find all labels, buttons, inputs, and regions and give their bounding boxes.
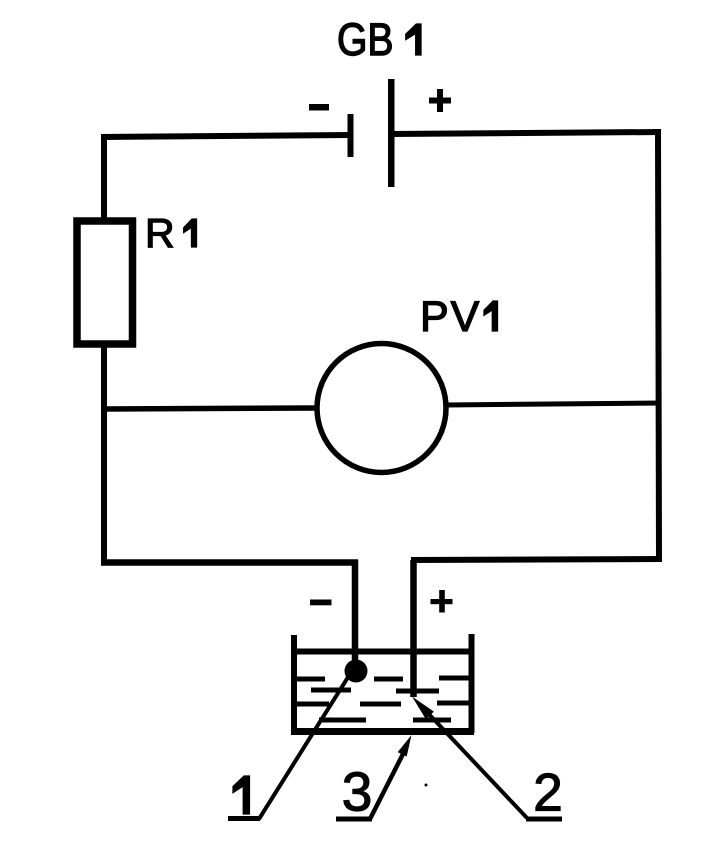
cell electrode 1 (cathode wire): [352, 560, 359, 665]
svg-text:R: R: [145, 210, 175, 256]
polarity plus (battery): [429, 89, 451, 112]
cell electrode 1 ball tip (node 1): [345, 660, 368, 683]
cell vessel left wall: [291, 635, 297, 733]
battery GB1 negative plate: [348, 114, 354, 157]
callout label 1: [233, 776, 250, 814]
svg-text:PV: PV: [420, 293, 481, 341]
wire left rail upper (top wire to R1): [101, 134, 107, 221]
callout underline 1: [228, 816, 260, 821]
electrolyte dashes row 4: [319, 718, 451, 723]
wire top-left (battery minus to left rail): [101, 135, 351, 137]
scan speck: [425, 784, 428, 787]
wire bottom-right (anode to right rail): [411, 559, 661, 560]
meter PV1: [317, 344, 446, 473]
wire left rail lower (R1 to bottom wire): [101, 344, 107, 565]
callout leader line 3 (to vessel bottom): [370, 752, 404, 819]
callout underline 2: [526, 817, 562, 822]
meter PV1 label: [420, 293, 498, 341]
wire top-right (battery plus to right rail): [391, 132, 661, 134]
callout leader line 2 (to anode tip): [425, 710, 527, 818]
svg-text:GB: GB: [337, 14, 394, 64]
svg-text:2: 2: [533, 764, 562, 823]
battery GB1 positive plate: [388, 79, 395, 187]
electrolyte dashes row 2: [311, 690, 439, 691]
battery GB1 label: [337, 14, 421, 64]
callout label 3: [342, 761, 373, 823]
electrolyte dashes row 1: [297, 678, 470, 679]
wire middle-right (PV1 to right rail): [446, 403, 661, 405]
polarity plus (cell anode): [431, 590, 453, 613]
polarity minus (cell cathode): [310, 600, 332, 606]
cell vessel right wall: [469, 634, 475, 733]
resistor R1: [77, 221, 133, 344]
callout leader line 1 (to cathode ball): [259, 674, 350, 819]
svg-text:3: 3: [342, 761, 373, 823]
cell electrode 2 (anode wire): [410, 560, 417, 697]
callout label 2: [533, 764, 562, 823]
cell vessel bottom: [291, 728, 474, 735]
resistor R1 label: [145, 210, 197, 256]
polarity minus (battery): [309, 104, 329, 111]
electrolyte dashes row 3: [296, 703, 471, 704]
wire right rail: [658, 129, 659, 562]
wire bottom-left (left rail to cathode): [101, 559, 358, 566]
wire middle-left (left rail to PV1): [101, 408, 318, 409]
electrolyte surface line (net 3): [291, 649, 474, 655]
callout arrowhead 2: [412, 697, 434, 720]
callout underline 3: [336, 817, 372, 822]
callout arrowhead 3: [398, 735, 412, 757]
